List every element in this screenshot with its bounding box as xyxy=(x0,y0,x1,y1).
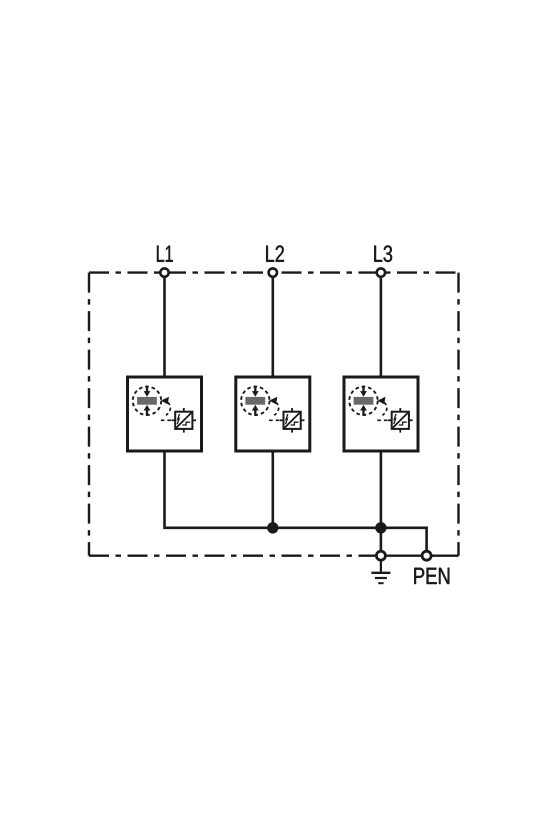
SPD1 spark-gap electrode bar xyxy=(137,397,157,405)
SPD3 trigger dashed link xyxy=(377,419,388,421)
terminal L2 xyxy=(269,268,277,276)
SPD1 top arrow xyxy=(146,386,148,392)
wire: SPD2 bottom lead xyxy=(271,451,274,528)
SPD3 trigger dashed curve xyxy=(383,402,387,415)
junction: bus / L2 xyxy=(267,522,278,533)
SPD2 trigger arrowhead xyxy=(269,397,277,404)
SPD2 trigger dashed link xyxy=(269,419,280,421)
SPD2 bottom arrow xyxy=(254,410,256,416)
SPD1 trigger dashed curve xyxy=(166,402,170,415)
enclosure border (dash-dot rectangle) xyxy=(89,273,459,556)
terminal PEN xyxy=(422,551,431,560)
wire: bottom border solid run between PE terminal and PEN corner xyxy=(386,555,459,557)
SPD3 trigger arrowhead xyxy=(377,397,385,404)
SPD1 trigger unit square xyxy=(172,408,197,433)
SPD2 top arrow xyxy=(254,386,256,392)
wire L1 vertical (terminal to SPD1) xyxy=(163,278,166,377)
SPD1 trigger dashed link xyxy=(161,419,172,421)
SPD3 spark-gap dashed circle xyxy=(349,387,377,415)
SPD1 spark-gap dashed circle xyxy=(133,387,161,415)
SPD module 1 box xyxy=(128,377,202,451)
SPD1 trigger arrowhead xyxy=(161,397,169,404)
SPD3 spark-gap electrode bar xyxy=(354,397,374,405)
label PEN xyxy=(414,568,449,584)
wire L3 vertical (terminal to SPD3) xyxy=(380,278,383,377)
SPD3 trigger unit square xyxy=(388,408,413,433)
label L1 xyxy=(157,246,173,262)
SPD1 bottom arrow xyxy=(146,410,148,416)
ground symbol xyxy=(371,561,390,583)
SPD module 3 box xyxy=(344,377,418,451)
terminal PE (ground) xyxy=(376,551,385,560)
SPD3 top arrow xyxy=(362,386,364,392)
terminal L1 xyxy=(160,268,168,276)
wire: SPD3 bottom lead down to PE terminal xyxy=(380,451,383,550)
wire L2 vertical (terminal to SPD2) xyxy=(271,278,274,377)
SPD module 2 box xyxy=(236,377,310,451)
wire: SPD1 bottom lead + common bus to PEN branch xyxy=(165,451,427,550)
junction: bus / L3 xyxy=(375,522,386,533)
terminal L3 xyxy=(377,268,385,276)
label L3 xyxy=(374,245,392,262)
SPD2 spark-gap electrode bar xyxy=(245,397,265,405)
SPD2 trigger unit square xyxy=(280,408,305,433)
label L2 xyxy=(266,245,284,261)
SPD2 spark-gap dashed circle xyxy=(241,387,269,415)
SPD2 trigger dashed curve xyxy=(274,402,278,415)
SPD3 bottom arrow xyxy=(362,410,364,416)
